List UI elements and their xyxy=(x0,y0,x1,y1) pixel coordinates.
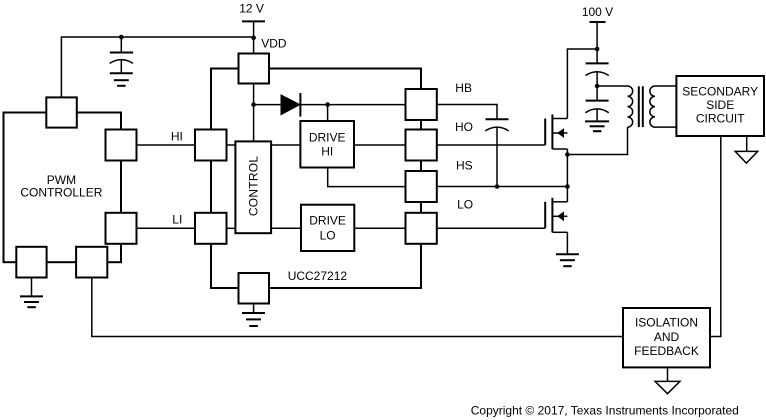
wire diode cathode to HB pin xyxy=(300,104,405,106)
pin box PWM bottom 2 xyxy=(76,247,107,278)
chassis ground triangle bottom xyxy=(655,381,680,393)
pin box UCC LI xyxy=(195,213,227,244)
capacitor C3 bulk top xyxy=(585,63,608,100)
wire secondary bottom to box xyxy=(655,126,676,128)
DRIVE HI box xyxy=(300,121,354,168)
wire VDD pin down to CONTROL xyxy=(253,84,255,142)
svg-text:HI: HI xyxy=(171,129,183,143)
node Q1 source to transformer xyxy=(565,152,570,157)
svg-text:LO: LO xyxy=(457,197,473,211)
wire Q1 source down through HS to Q2 drain xyxy=(566,149,568,202)
ground under UCC GND pin xyxy=(242,313,265,326)
svg-text:HS: HS xyxy=(456,159,473,173)
pin box PWM bottom 1 xyxy=(16,247,46,278)
12 V supply bar xyxy=(242,21,265,53)
svg-text:100 V: 100 V xyxy=(582,5,613,19)
wire diode anode xyxy=(254,104,281,106)
node junction dot at decoupling cap xyxy=(119,35,124,40)
svg-text:CONTROL: CONTROL xyxy=(246,156,260,216)
pin box PWM LI xyxy=(106,213,137,244)
PWM controller block xyxy=(4,113,122,263)
wire isolation box to chassis ground xyxy=(667,367,669,381)
UCC27212 outer block xyxy=(211,69,421,289)
capacitor C4 bulk bottom xyxy=(585,101,608,122)
SECONDARY SIDE CIRCUIT box xyxy=(676,76,764,136)
svg-text:UCC27212: UCC27212 xyxy=(288,269,348,283)
pin box UCC HI xyxy=(195,130,227,161)
transformer T1 secondary winding xyxy=(650,86,655,127)
svg-text:HB: HB xyxy=(455,81,472,95)
DRIVE LO box xyxy=(301,205,354,251)
svg-text:AND: AND xyxy=(654,330,680,344)
svg-text:LO: LO xyxy=(320,229,336,243)
pin box PWM top xyxy=(46,97,77,127)
ground under PWM pin 1 xyxy=(20,296,43,307)
node 12V junction xyxy=(251,35,256,40)
node diode anode junction xyxy=(251,102,256,107)
wire secondary box to isolation box xyxy=(710,136,721,337)
svg-text:ISOLATION: ISOLATION xyxy=(635,316,698,330)
transformer T1 primary winding xyxy=(628,86,633,127)
ISOLATION AND FEEDBACK box xyxy=(623,308,710,367)
wire UCC GND pin to ground xyxy=(253,304,255,314)
node HS junction xyxy=(565,184,570,189)
pin box UCC HB xyxy=(406,89,437,120)
wire pin1 to ground xyxy=(31,278,33,297)
wire LI from PWM to UCC xyxy=(137,227,196,229)
node bootstrap cap to HS xyxy=(495,184,500,189)
svg-text:HO: HO xyxy=(455,120,473,134)
wire primary return to Q1 source xyxy=(567,127,627,154)
transformer T1 core xyxy=(639,86,643,127)
wire top rail from PWM top pin to VDD node xyxy=(61,37,253,97)
svg-text:12 V: 12 V xyxy=(239,2,264,16)
svg-text:FEEDBACK: FEEDBACK xyxy=(634,344,699,358)
wire 100V node to primary xyxy=(597,85,627,87)
100 V supply bar xyxy=(590,22,606,63)
svg-text:CONTROLLER: CONTROLLER xyxy=(20,186,102,200)
wire PWM bottom pin 2 to feedback line xyxy=(92,278,623,337)
wire LO pin to Q2 gate xyxy=(437,227,545,229)
svg-text:CIRCUIT: CIRCUIT xyxy=(696,111,745,125)
wire CONTROL to DRIVE HI xyxy=(271,144,300,146)
ground under Q2 xyxy=(556,254,579,266)
capacitor C2 bootstrap xyxy=(485,119,508,186)
svg-text:SECONDARY: SECONDARY xyxy=(682,85,758,99)
wire HO pin to Q1 gate xyxy=(437,144,545,146)
wire junction down to DRIVE HI top xyxy=(327,105,329,121)
wire DRIVE HI to HO pin xyxy=(354,144,406,146)
wire LI pin to CONTROL xyxy=(227,227,236,229)
wire HB pin to bootstrap cap xyxy=(437,105,497,120)
node 100V junction xyxy=(595,47,600,52)
wire Q2 source to ground xyxy=(566,232,568,254)
ground under C1 xyxy=(110,73,133,86)
svg-text:SIDE: SIDE xyxy=(706,98,734,112)
svg-text:DRIVE: DRIVE xyxy=(309,130,346,144)
diode D1 bootstrap xyxy=(281,93,300,117)
wire Q1 drain up to 100V node xyxy=(567,49,597,119)
pin box UCC VDD xyxy=(239,54,270,84)
ground under C4 xyxy=(585,121,609,131)
CONTROL box U1 xyxy=(235,141,271,233)
svg-text:DRIVE: DRIVE xyxy=(309,214,346,228)
svg-text:HI: HI xyxy=(321,145,333,159)
wire DRIVE LO to LO pin xyxy=(354,227,405,229)
wire HI pin to CONTROL xyxy=(227,144,236,146)
wire HS pin to Q1 source node xyxy=(437,186,568,188)
svg-text:VDD: VDD xyxy=(261,36,287,50)
pin box PWM HI xyxy=(106,130,137,161)
node transformer primary top xyxy=(595,84,600,89)
transistor Q1 high-side MOSFET xyxy=(545,115,567,150)
capacitor C1 decoupling at VDD rail xyxy=(110,37,134,73)
wire secondary box to chassis ground xyxy=(746,136,748,151)
pin box UCC HS xyxy=(406,171,437,202)
svg-text:Copyright © 2017, Texas Instru: Copyright © 2017, Texas Instruments Inco… xyxy=(471,404,739,418)
transistor Q2 low-side MOSFET xyxy=(545,198,567,233)
pin box UCC LO xyxy=(406,213,437,244)
wire DRIVE HI bottom to HS pin xyxy=(328,168,406,187)
node diode cathode junction xyxy=(325,102,330,107)
pin box UCC GND xyxy=(239,273,270,304)
wire CONTROL to DRIVE LO xyxy=(271,227,301,229)
svg-text:LI: LI xyxy=(172,212,182,226)
wire secondary top to box xyxy=(655,85,676,87)
pin box UCC HO xyxy=(406,130,437,161)
chassis ground triangle right xyxy=(735,151,758,163)
wire HI from PWM to UCC xyxy=(137,144,196,146)
